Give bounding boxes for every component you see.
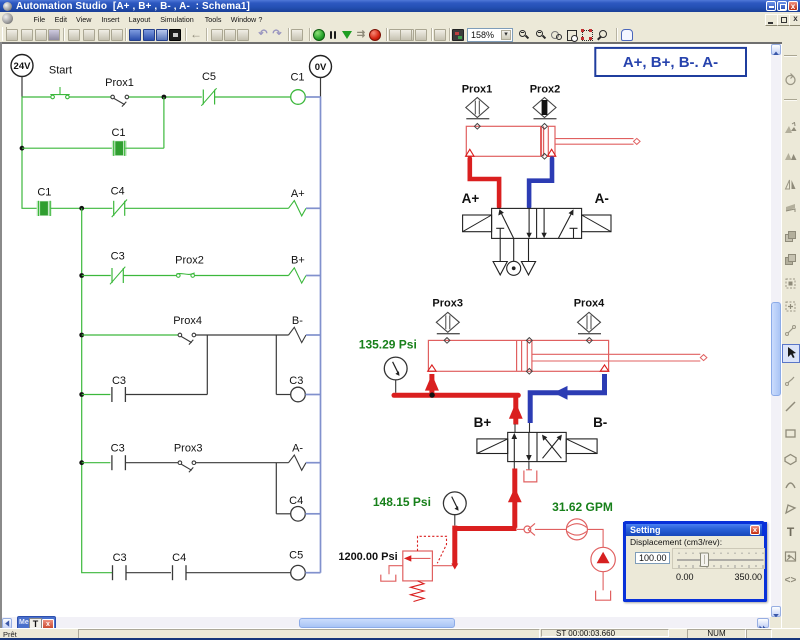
wire	[123, 275, 176, 277]
svg-text:A+, B+, B-. A-: A+, B+, B-. A-	[623, 54, 718, 71]
menu bar	[0, 0, 800, 1]
wire to rail	[306, 462, 321, 464]
scrollbars	[771, 44, 781, 617]
wire	[82, 275, 111, 277]
status bar	[0, 628, 800, 639]
svg-text:C4: C4	[289, 495, 303, 507]
title bar	[0, 0, 800, 12]
svg-text:C5: C5	[289, 549, 303, 561]
NO contact C3	[112, 375, 126, 402]
svg-text:B-: B-	[593, 415, 607, 430]
right tool panel	[781, 44, 800, 628]
right rail	[320, 78, 322, 573]
wire	[125, 207, 289, 209]
wire to rail	[305, 572, 320, 574]
valve A right pilot	[582, 215, 611, 232]
svg-text:Start: Start	[49, 65, 72, 77]
NO contact C3 rung5	[111, 442, 126, 470]
valve A left pilot	[463, 215, 492, 232]
coil C4	[289, 495, 305, 521]
wire	[82, 334, 178, 336]
title box	[595, 48, 746, 76]
output B-	[289, 315, 307, 343]
pump tank	[596, 591, 611, 601]
svg-text:C1: C1	[37, 187, 51, 199]
limit switch Prox4 (open)	[173, 315, 202, 345]
proximity sensor Prox3	[432, 297, 463, 333]
wire	[125, 394, 207, 396]
cylinder A sensor targets	[474, 124, 547, 160]
wire to rail	[306, 334, 321, 336]
NC contact C3	[110, 250, 125, 284]
wire	[196, 334, 289, 336]
NO contact C4 rung6	[172, 552, 186, 580]
4/2 valve B body	[508, 432, 567, 461]
limit switch contact Prox1 (open)	[105, 77, 134, 107]
junction node rung5	[79, 460, 84, 465]
svg-text:Prox3: Prox3	[174, 442, 203, 454]
proximity sensor Prox1	[462, 84, 493, 119]
pneumatic cylinder A body	[466, 126, 555, 156]
valve B right position cross	[542, 435, 562, 459]
NC contact C4	[111, 185, 127, 217]
output A+	[289, 188, 307, 216]
relief valve	[403, 536, 453, 581]
svg-text:Prox1: Prox1	[105, 77, 134, 89]
hydraulic main line red	[394, 393, 518, 398]
left rail	[22, 77, 37, 209]
wire	[186, 572, 291, 574]
svg-text:C4: C4	[172, 552, 186, 564]
pneumatic hose blue A	[529, 159, 552, 207]
coil C1	[290, 72, 305, 105]
contact C1 rung2 (closed, energized)	[37, 187, 52, 216]
sub rail vertical	[82, 208, 112, 572]
relief valve drop line	[451, 529, 458, 570]
svg-text:24V: 24V	[14, 61, 32, 72]
flow meter 31.62 GPM	[535, 500, 613, 540]
contact C1 (closed, energized)	[111, 127, 126, 156]
wire	[51, 207, 113, 209]
Setting dialog	[623, 522, 767, 602]
svg-text:B+: B+	[474, 415, 492, 430]
valve B tank	[524, 462, 537, 482]
pushbutton Start (closed)	[49, 65, 72, 99]
valve B left position arrows	[512, 432, 532, 461]
canvas	[0, 42, 782, 44]
NC contact C5	[201, 71, 216, 106]
svg-text:B+: B+	[291, 254, 305, 266]
svg-text:C3: C3	[113, 552, 127, 564]
svg-text:31.62 GPM: 31.62 GPM	[552, 500, 613, 514]
junction node branch C3	[79, 392, 84, 397]
limit switch Prox2 (closed)	[175, 255, 204, 278]
wire	[82, 462, 111, 464]
proximity sensor Prox2 (activated)	[530, 84, 561, 119]
wire	[125, 147, 164, 149]
svg-text:Prox3: Prox3	[432, 297, 463, 309]
hydraulic pump line red	[455, 526, 517, 529]
24V supply terminal	[11, 55, 33, 77]
svg-text:C3: C3	[289, 375, 303, 387]
svg-text:C4: C4	[111, 185, 125, 197]
hydraulic line red down to valve B	[509, 395, 523, 432]
cylinder B sensor targets	[444, 338, 592, 375]
svg-text:A-: A-	[595, 191, 609, 206]
wire down to branch	[206, 335, 208, 395]
junction node	[162, 95, 167, 100]
junction node rung4	[79, 333, 84, 338]
svg-text:A+: A+	[291, 188, 305, 200]
junction node rung3	[79, 273, 84, 278]
wire	[195, 275, 289, 277]
svg-text:Prox1: Prox1	[462, 84, 493, 96]
svg-text:C3: C3	[111, 442, 125, 454]
hydraulic pump	[587, 529, 615, 590]
valve B right pilot	[566, 439, 597, 454]
0V supply terminal	[310, 56, 332, 78]
limit switch Prox3 (open)	[174, 442, 203, 472]
proximity sensor Prox4	[574, 297, 605, 333]
gauge 148.15 Psi	[373, 492, 466, 526]
cylinder A ports	[466, 149, 556, 156]
label B+	[474, 415, 492, 430]
svg-text:C3: C3	[111, 250, 125, 262]
wire	[125, 462, 178, 464]
wire branch	[22, 147, 112, 149]
valve A exhaust right	[521, 238, 535, 275]
output A-	[289, 442, 307, 470]
relief valve drain tank	[381, 566, 403, 582]
cylinder B piston rod	[532, 354, 707, 361]
valve A left position arrows	[496, 208, 532, 238]
wire A- to coil C4	[276, 463, 290, 514]
label 1200.00 Psi	[338, 551, 397, 563]
svg-text:C5: C5	[202, 71, 216, 83]
svg-text:C1: C1	[290, 72, 304, 84]
wire B- to coil	[276, 335, 290, 395]
cylinder A piston rod	[555, 138, 640, 144]
junction node	[429, 392, 434, 397]
cylinder B ports	[428, 365, 609, 371]
wire	[82, 394, 111, 396]
NO contact C3 rung6	[113, 552, 127, 580]
wire to right rail	[305, 96, 320, 98]
svg-text:1200.00 Psi: 1200.00 Psi	[338, 551, 397, 563]
valve A pressure source	[507, 238, 521, 275]
check valve	[517, 523, 535, 535]
wire to rail	[306, 275, 321, 277]
svg-text:A+: A+	[462, 191, 480, 206]
gauge 135.29 Psi	[359, 337, 417, 392]
svg-text:0V: 0V	[315, 62, 327, 73]
output B+	[289, 254, 307, 283]
svg-text:A-: A-	[292, 442, 303, 454]
junction node	[79, 206, 84, 211]
svg-text:Prox4: Prox4	[173, 315, 202, 327]
pneumatic hose red A	[470, 159, 499, 207]
hydraulic line red to cylinder B	[425, 374, 439, 395]
wire to rail	[305, 513, 320, 515]
5/2 valve A body	[492, 208, 582, 238]
valve B left pilot	[477, 439, 508, 454]
wire	[215, 96, 291, 98]
svg-text:C3: C3	[112, 375, 126, 387]
wire up to rung1	[163, 97, 165, 148]
svg-text:Prox2: Prox2	[530, 84, 561, 96]
coil C5	[289, 549, 305, 580]
hydraulic cylinder B body	[428, 340, 608, 371]
wire	[196, 462, 289, 464]
svg-text:148.15 Psi: 148.15 Psi	[373, 495, 431, 509]
valve A right position arrows	[541, 208, 577, 238]
label B-	[593, 415, 607, 430]
svg-text:B-: B-	[292, 315, 303, 327]
svg-text:C1: C1	[111, 127, 125, 139]
hydraulic supply line red	[508, 462, 522, 528]
svg-text:135.29 Psi: 135.29 Psi	[359, 337, 417, 351]
hydraulic line blue from cylinder B	[530, 374, 605, 432]
relief valve spring	[411, 581, 425, 602]
valve A exhaust left	[493, 238, 507, 275]
svg-text:Prox2: Prox2	[175, 255, 204, 267]
node on left rail	[20, 146, 25, 151]
svg-text:Prox4: Prox4	[574, 297, 605, 309]
wire	[126, 572, 171, 574]
wire to rail	[306, 207, 321, 209]
label A-	[595, 191, 609, 206]
wire	[129, 96, 202, 98]
coil C3	[289, 375, 305, 402]
label A+	[462, 191, 480, 206]
wire rung1	[22, 96, 51, 98]
wire to rail	[305, 394, 320, 396]
wire	[69, 96, 111, 98]
toolbar	[0, 26, 800, 42]
